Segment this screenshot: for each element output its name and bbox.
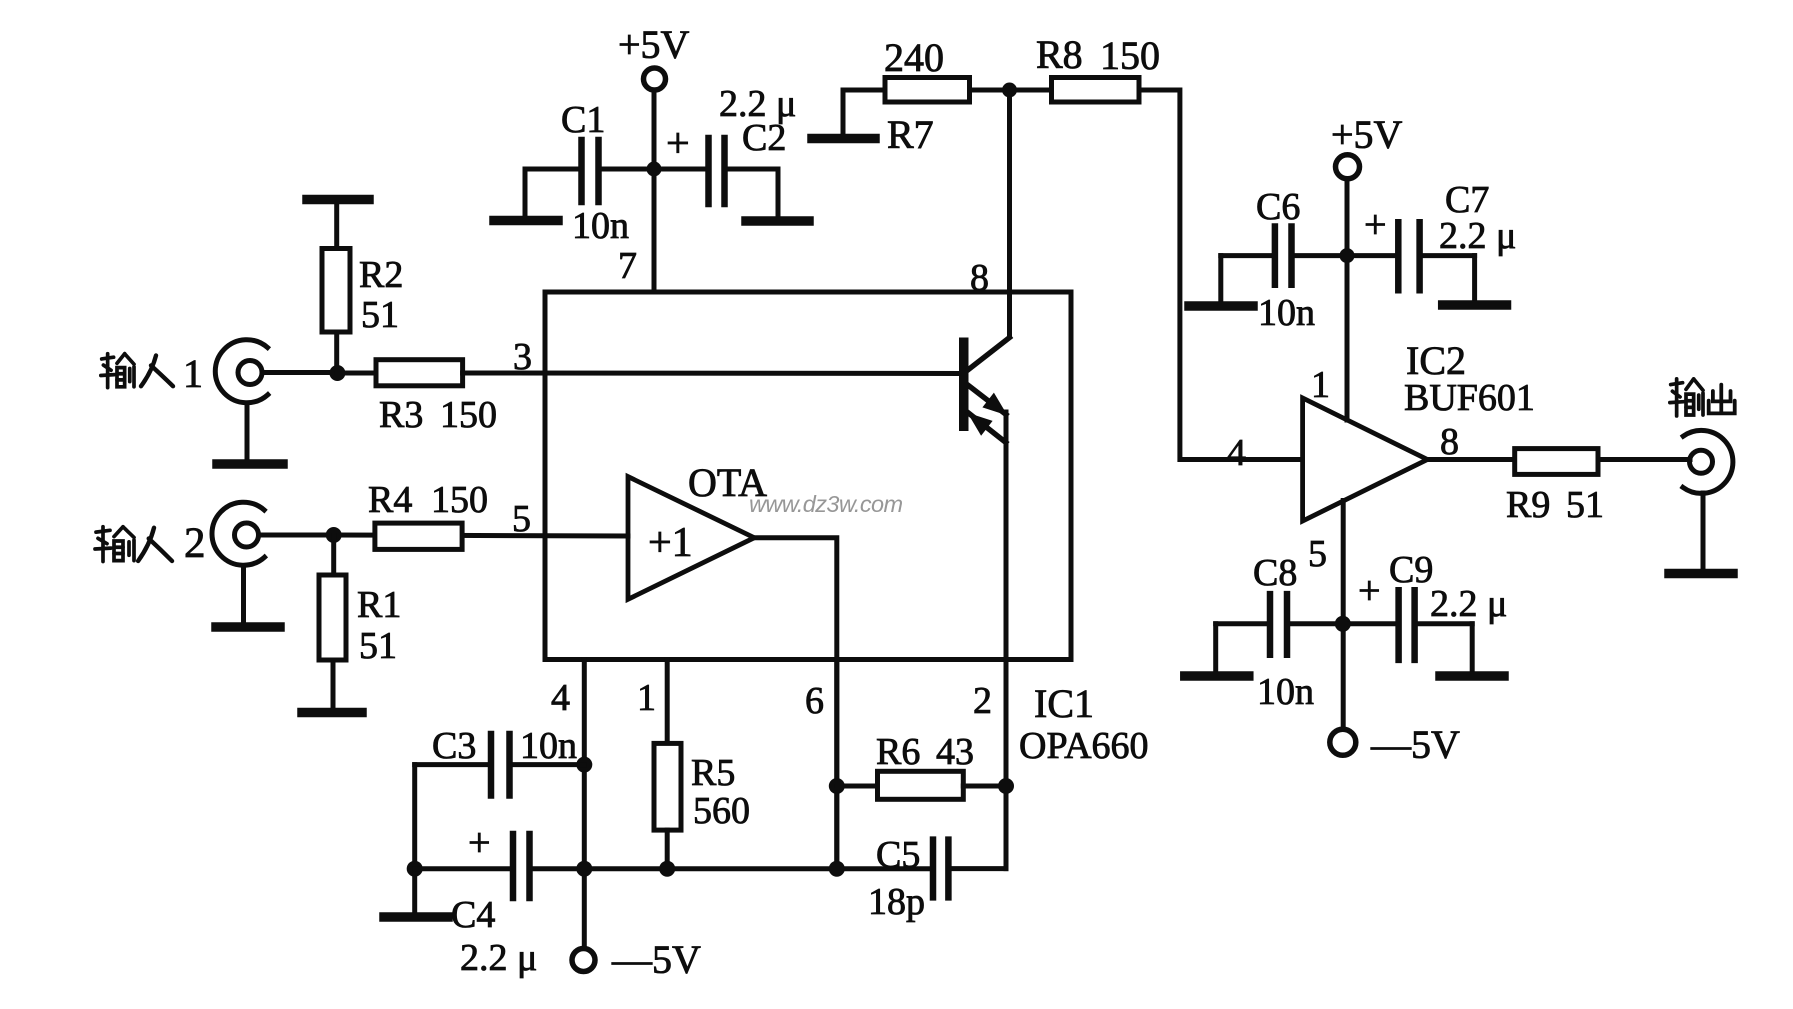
svg-text:10n: 10n — [1257, 671, 1314, 713]
label C9 value — [1389, 549, 1507, 625]
ground (C4 left) — [384, 869, 448, 917]
capacitor C5 — [933, 840, 1006, 898]
svg-text:10n: 10n — [1258, 292, 1315, 334]
wire bottom rail — [415, 866, 929, 871]
ground (C8) — [1185, 624, 1249, 676]
svg-text:R7: R7 — [887, 112, 934, 157]
label +5V right — [1331, 112, 1403, 157]
resistor R9 — [1515, 449, 1690, 475]
label output — [1670, 379, 1735, 416]
svg-text:1: 1 — [1311, 364, 1330, 406]
svg-text:560: 560 — [693, 790, 750, 832]
node junction R7/R8/pin8 — [1002, 83, 1017, 98]
wire IC2 pin 8 output — [1427, 457, 1514, 462]
label C7 polarity + — [1364, 202, 1387, 247]
connector BNC input 1 — [215, 340, 331, 403]
svg-text:4: 4 — [1227, 432, 1246, 474]
wire R8 to IC2 pin 4 — [1139, 90, 1303, 460]
label +5V left — [618, 22, 690, 67]
resistor R4 — [375, 523, 462, 549]
svg-text:150: 150 — [431, 479, 488, 521]
svg-text:R4: R4 — [368, 479, 412, 521]
connector BNC output — [1683, 430, 1733, 493]
label input 2 — [95, 520, 206, 567]
label IC1 OPA660 — [1019, 681, 1149, 767]
power terminal +5V (left) — [644, 68, 666, 90]
node junction R6/pin2 — [998, 778, 1014, 794]
label C1 value — [561, 99, 629, 247]
svg-text:5: 5 — [512, 498, 531, 540]
svg-text:+: + — [666, 121, 690, 167]
node junction R5 rail — [659, 861, 675, 877]
wire C3/C4 left branch — [412, 765, 417, 869]
svg-text:R9: R9 — [1506, 484, 1550, 526]
svg-text:8: 8 — [1440, 421, 1459, 463]
ground (C6) — [1189, 256, 1253, 306]
svg-text:R5: R5 — [691, 752, 735, 794]
ground (BNC1) — [217, 403, 283, 464]
svg-text:150: 150 — [1100, 33, 1160, 78]
label C6 value — [1256, 186, 1315, 334]
svg-text:7: 7 — [618, 245, 637, 287]
label R8 150 — [1036, 32, 1160, 78]
label R5 value — [691, 752, 750, 832]
svg-text:2: 2 — [184, 520, 206, 567]
node junction C1/C2/+5V — [647, 162, 662, 177]
capacitor C7 — [1353, 222, 1475, 290]
svg-text:4: 4 — [551, 677, 570, 719]
label C2 value — [719, 83, 796, 159]
node junction C4 left — [407, 861, 423, 877]
ground (C9) — [1440, 624, 1504, 676]
svg-text:C4: C4 — [451, 894, 495, 936]
wire OTA output to pin 6 — [754, 538, 837, 869]
svg-text:+5V: +5V — [1331, 112, 1403, 157]
ground (BNC out) — [1669, 493, 1733, 574]
node junction pin4/C3 — [576, 757, 592, 773]
label C5 value — [868, 834, 925, 923]
node junction input2 — [326, 527, 342, 543]
power terminal -5V (left) — [572, 949, 595, 972]
power terminal -5V (right) — [1330, 729, 1356, 755]
svg-text:2.2 μ: 2.2 μ — [1439, 215, 1516, 257]
label -5V right — [1370, 722, 1460, 767]
ground (R7) — [812, 90, 875, 139]
resistor R1 — [319, 535, 346, 660]
label C2 polarity + — [666, 121, 690, 167]
node A junction input1 — [329, 365, 345, 381]
watermark — [749, 491, 902, 517]
wire collector pin 8 — [1007, 90, 1012, 337]
label IC2 BUF601 — [1404, 338, 1535, 419]
node junction pin4 rail — [576, 861, 592, 877]
label pin 6 — [805, 680, 824, 722]
ground (C1) — [494, 169, 558, 221]
svg-text:150: 150 — [440, 394, 497, 436]
svg-text:R8: R8 — [1036, 32, 1083, 77]
resistor R8 — [1016, 78, 1139, 103]
label OTA — [688, 460, 767, 505]
svg-text:10n: 10n — [520, 725, 577, 767]
svg-text:C2: C2 — [742, 117, 786, 159]
wire pin 1 — [665, 660, 670, 744]
connector BNC input 2 — [212, 502, 331, 565]
label C3 value — [432, 725, 577, 767]
svg-text:C6: C6 — [1256, 186, 1300, 228]
label C4 polarity + — [468, 820, 491, 865]
label IC2 pin 8 — [1440, 421, 1459, 463]
svg-text:R1: R1 — [357, 584, 401, 626]
label R7 value 240 — [884, 35, 944, 157]
label pin 5 — [512, 498, 531, 540]
node junction pin6 rail — [829, 861, 845, 877]
node junction pin6/R6 — [829, 778, 845, 794]
node junction C8/C9 — [1335, 616, 1351, 632]
capacitor C6 — [1221, 227, 1341, 285]
capacitor C4 — [513, 834, 530, 898]
svg-text:—5V: —5V — [611, 937, 701, 982]
label OTA gain +1 — [648, 520, 693, 566]
wire +5V right to IC2 pin1 — [1345, 179, 1350, 420]
transistor Q1 (diamond transistor of OPA660) — [959, 338, 1010, 869]
svg-text:10n: 10n — [572, 205, 629, 247]
label R4 150 — [368, 479, 488, 521]
label R2 value — [359, 254, 403, 336]
svg-text:2: 2 — [973, 680, 992, 722]
svg-text:3: 3 — [513, 336, 532, 378]
svg-text:—5V: —5V — [1370, 722, 1460, 767]
svg-text:8: 8 — [970, 257, 989, 299]
svg-text:1: 1 — [637, 677, 656, 719]
svg-text:C1: C1 — [561, 99, 605, 141]
svg-text:51: 51 — [361, 294, 399, 336]
label pin 2 — [973, 680, 992, 722]
svg-text:OPA660: OPA660 — [1019, 725, 1149, 767]
wire pin 5 — [334, 535, 628, 536]
resistor R5 — [654, 743, 681, 868]
resistor R2 — [322, 249, 350, 374]
label pin 1 — [637, 677, 656, 719]
svg-text:2.2 μ: 2.2 μ — [460, 937, 537, 979]
svg-text:6: 6 — [805, 680, 824, 722]
svg-text:www.dz3w.com: www.dz3w.com — [749, 491, 902, 517]
label pin 7 — [618, 245, 637, 287]
wire pin 3 — [337, 371, 959, 377]
label C7 value — [1439, 179, 1516, 257]
svg-text:240: 240 — [884, 35, 944, 80]
ground (R1) — [302, 660, 362, 713]
capacitor C3 — [415, 734, 585, 796]
label C9 polarity + — [1358, 568, 1381, 613]
svg-text:18p: 18p — [868, 881, 925, 923]
svg-text:1: 1 — [183, 351, 203, 396]
label pin 4 — [551, 677, 570, 719]
svg-text:IC1: IC1 — [1034, 681, 1094, 726]
svg-text:R2: R2 — [359, 254, 403, 296]
capacitor C9 — [1349, 590, 1472, 660]
resistor R7 — [843, 78, 1003, 103]
svg-text:51: 51 — [1566, 484, 1604, 526]
op-amp IC1 box — [545, 292, 1071, 660]
ground (C2) — [746, 169, 809, 221]
label R6 43 — [876, 731, 974, 773]
svg-text:+: + — [1358, 568, 1381, 613]
label R9 51 — [1506, 484, 1604, 526]
capacitor C2 — [660, 138, 778, 204]
label IC2 pin 5 — [1308, 533, 1327, 575]
wire +5V to pin 7 — [652, 91, 657, 293]
svg-text:R3: R3 — [379, 394, 423, 436]
capacitor C1 — [525, 140, 648, 202]
svg-text:C8: C8 — [1253, 552, 1297, 594]
label -5V left — [611, 937, 701, 982]
ground (R2 top) — [307, 200, 369, 249]
power terminal +5V (right) — [1336, 155, 1360, 179]
label pin 8 IC1 — [970, 257, 989, 299]
capacitor C8 — [1216, 594, 1337, 655]
wire IC2 pin 5 — [1341, 501, 1346, 730]
svg-text:+: + — [468, 820, 491, 865]
op-amp IC2 triangle — [1303, 398, 1428, 521]
label C8 value — [1253, 552, 1314, 713]
wire pin 4 — [582, 660, 587, 949]
label input 1 — [101, 351, 203, 396]
label C4 value — [451, 894, 537, 979]
resistor R6 — [837, 771, 1006, 799]
ground (BNC2) — [216, 566, 280, 627]
svg-text:2.2 μ: 2.2 μ — [1430, 583, 1507, 625]
op-amp OTA triangle — [628, 477, 754, 600]
ground (C7) — [1443, 256, 1507, 305]
label pin 3 — [513, 336, 532, 378]
svg-text:C9: C9 — [1389, 549, 1433, 591]
svg-text:5: 5 — [1308, 533, 1327, 575]
label R3 150 — [379, 394, 497, 436]
node junction C6/C7 — [1340, 248, 1355, 263]
svg-text:+5V: +5V — [618, 22, 690, 67]
resistor R3 — [376, 360, 463, 386]
svg-text:43: 43 — [936, 731, 974, 773]
svg-text:51: 51 — [359, 625, 397, 667]
svg-text:BUF601: BUF601 — [1404, 377, 1535, 419]
svg-text:+1: +1 — [648, 520, 693, 566]
svg-text:C3: C3 — [432, 725, 476, 767]
svg-text:R6: R6 — [876, 731, 920, 773]
wire pin 6 — [834, 660, 839, 869]
label IC2 pin 1 — [1311, 364, 1330, 406]
label IC2 pin 4 — [1227, 432, 1246, 474]
svg-text:C5: C5 — [876, 834, 920, 876]
label R1 value — [357, 584, 401, 667]
svg-text:+: + — [1364, 202, 1387, 247]
